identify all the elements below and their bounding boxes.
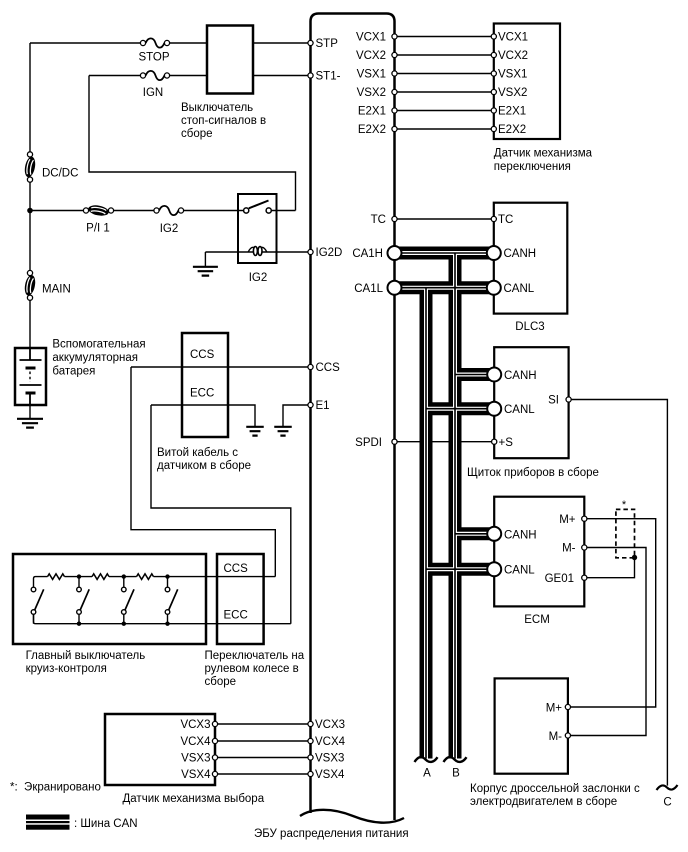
svg-text:VSX2: VSX2 — [357, 87, 386, 99]
node CANL ECM — [487, 562, 501, 576]
svg-text:VSX3: VSX3 — [315, 753, 344, 765]
node VSX1 sensor — [491, 71, 496, 76]
stop lamp switch box — [207, 26, 253, 94]
svg-text:Корпус дроссельной заслонки с: Корпус дроссельной заслонки с — [470, 783, 640, 795]
node GE01 — [582, 575, 587, 580]
svg-text:VSX4: VSX4 — [181, 769, 211, 781]
relay IG2 contacts and blade — [249, 201, 269, 209]
svg-text:Переключатель на: Переключатель на — [205, 650, 305, 662]
DLC3 box — [494, 203, 568, 314]
node VCX1 ECU — [392, 34, 397, 39]
node VSX4 sensor — [212, 771, 217, 776]
selector sensor box — [105, 714, 215, 785]
svg-text:CANH: CANH — [504, 370, 537, 382]
node M+ throttle — [565, 704, 570, 709]
node CANL DLC3 — [487, 281, 501, 295]
wire STOP fuse feed (bus to stop lamp switch) — [30, 42, 207, 44]
svg-text:TC: TC — [498, 214, 513, 226]
node VSX3 sensor — [212, 755, 217, 760]
svg-text:CANH: CANH — [504, 248, 537, 260]
wire relay ground stem — [204, 252, 206, 267]
svg-text:стоп-сигналов в: стоп-сигналов в — [181, 115, 266, 127]
fuse IG2 — [154, 208, 159, 213]
wire P/I 1 row — [30, 210, 296, 212]
fusible link DC/DC — [27, 152, 32, 157]
steering wheel switch box — [217, 554, 264, 644]
svg-text:аккумуляторная: аккумуляторная — [52, 352, 138, 364]
ground battery — [17, 419, 43, 428]
wire ECM M- to throttle M- — [568, 548, 646, 736]
wire IGN fuse row — [89, 75, 207, 77]
battery box — [15, 348, 46, 405]
switch cruise S3 — [123, 577, 125, 587]
svg-text:рулевом колесе в: рулевом колесе в — [205, 663, 299, 675]
svg-text:датчиком в сборе: датчиком в сборе — [157, 460, 251, 472]
node junction bus / P-I 1 — [27, 208, 33, 214]
switch cruise S4 — [167, 577, 169, 587]
node E1 — [308, 402, 313, 407]
node IG2D — [308, 249, 313, 254]
node VCX1 sensor — [491, 34, 496, 39]
svg-text:электродвигателем в сборе: электродвигателем в сборе — [470, 796, 617, 808]
svg-text:M+: M+ — [559, 514, 576, 526]
node M+ ECM — [582, 516, 587, 521]
node E2X1 ECU — [392, 108, 397, 113]
svg-text:DC/DC: DC/DC — [42, 168, 78, 180]
svg-text:CANL: CANL — [504, 283, 535, 295]
shift sensor box — [494, 24, 560, 140]
wire SI to C — [569, 400, 668, 786]
svg-text:C: C — [663, 797, 671, 809]
svg-text:VCX4: VCX4 — [180, 736, 211, 748]
svg-text:SI: SI — [548, 395, 559, 407]
svg-text:VCX1: VCX1 — [356, 32, 386, 44]
svg-text:E2X1: E2X1 — [498, 106, 526, 118]
ECM box — [494, 497, 584, 607]
instrument panel box — [494, 347, 568, 458]
svg-text:VSX3: VSX3 — [181, 753, 210, 765]
svg-text:CA1L: CA1L — [354, 283, 383, 295]
svg-text:E1: E1 — [316, 400, 330, 412]
svg-text:Вспомогательная: Вспомогательная — [52, 339, 145, 351]
svg-text:переключения: переключения — [494, 161, 571, 173]
node VSX2 ECU — [392, 89, 397, 94]
svg-text:DLC3: DLC3 — [515, 321, 544, 333]
resistor cruise R1 — [48, 574, 65, 580]
wire C break symbol — [657, 785, 678, 790]
fuse STOP — [140, 40, 145, 45]
node STP — [308, 40, 313, 45]
node GE01 shield junction — [632, 555, 637, 560]
wire left main bus — [29, 43, 31, 348]
wire ECC row to ground — [151, 405, 255, 427]
svg-text:CCS: CCS — [190, 349, 215, 361]
svg-text:ST1-: ST1- — [316, 71, 341, 83]
svg-text:Выключатель: Выключатель — [181, 102, 253, 114]
node VCX2 sensor — [491, 52, 496, 57]
wire battery ground stem — [29, 405, 31, 419]
fuse IGN — [140, 73, 145, 78]
node CANH ECM — [487, 527, 501, 541]
svg-text:VCX3: VCX3 — [180, 719, 210, 731]
node VSX4 ECU — [308, 771, 313, 776]
wires VCX3-VSX4 from selector sensor — [215, 724, 311, 774]
svg-text:M+: M+ — [546, 702, 563, 714]
shield dashed box — [616, 509, 635, 557]
svg-text:B: B — [452, 768, 460, 780]
wire E1 to ground — [283, 405, 311, 427]
node CA1H — [388, 246, 402, 260]
resistor cruise R2 — [92, 574, 109, 580]
node ST1- — [308, 73, 313, 78]
svg-text:CANL: CANL — [504, 565, 535, 577]
svg-text:Витой кабель с: Витой кабель с — [157, 447, 238, 459]
svg-text:IG2: IG2 — [249, 272, 268, 284]
svg-text:батарея: батарея — [52, 366, 95, 378]
svg-text:: Шина CAN: : Шина CAN — [74, 818, 138, 830]
svg-text:+S: +S — [499, 437, 514, 449]
legend CAN bus symbol — [26, 815, 70, 820]
switch cruise S1 — [33, 615, 35, 624]
svg-text:STOP: STOP — [138, 52, 169, 64]
svg-text:M-: M- — [562, 543, 576, 555]
fusible link MAIN — [27, 270, 32, 275]
fusible link P/I 1 — [83, 208, 88, 213]
relay IG2 coil — [248, 247, 254, 252]
node CANL instrument — [487, 402, 501, 416]
svg-text:VCX3: VCX3 — [315, 719, 345, 731]
svg-text:E2X2: E2X2 — [498, 124, 526, 136]
node CANH DLC3 — [487, 246, 501, 260]
wire TC — [395, 218, 494, 220]
node VCX4 sensor — [212, 738, 217, 743]
wire ECM M+ to throttle M+ — [568, 519, 656, 707]
wire CCS row — [131, 366, 311, 368]
battery cells — [20, 348, 42, 405]
svg-text:сборе: сборе — [205, 676, 237, 688]
ground E1 — [274, 427, 292, 436]
resistor cruise R3 — [137, 574, 154, 580]
svg-text:Щиток приборов в сборе: Щиток приборов в сборе — [467, 467, 599, 479]
svg-text:TC: TC — [371, 214, 386, 226]
ECU power distribution box — [311, 14, 395, 821]
wire GE01 to shield — [584, 558, 634, 578]
wire SPDI — [395, 441, 495, 443]
svg-text:E2X1: E2X1 — [358, 106, 386, 118]
wires VCX1-E2X2 to shift sensor — [395, 37, 494, 130]
node VSX3 ECU — [308, 755, 313, 760]
svg-text:VSX1: VSX1 — [498, 69, 527, 81]
svg-text:ECM: ECM — [524, 614, 550, 626]
node VCX4 ECU — [308, 738, 313, 743]
CAN bus black layer — [395, 253, 495, 759]
twisted cable box — [182, 333, 228, 437]
svg-text:CANH: CANH — [504, 529, 537, 541]
svg-text:E2X2: E2X2 — [358, 124, 386, 136]
switch cruise S2 — [78, 577, 80, 587]
svg-text:CANL: CANL — [504, 404, 535, 416]
cruise main switch box — [13, 554, 206, 644]
svg-text:VSX1: VSX1 — [357, 69, 386, 81]
CAN bus white stripes layer — [395, 253, 495, 759]
node SI — [566, 397, 571, 402]
wire ECC drop to cruise switch — [151, 405, 291, 624]
node E2X2 ECU — [392, 126, 397, 131]
node VCX3 sensor — [212, 721, 217, 726]
svg-text:Датчик механизма: Датчик механизма — [494, 148, 593, 160]
svg-text:*: * — [622, 499, 627, 511]
svg-text:CCS: CCS — [224, 563, 249, 575]
ground ECC — [246, 427, 264, 436]
CAN bus center line layer — [395, 253, 495, 759]
svg-text:ECC: ECC — [224, 610, 248, 622]
svg-text:Главный выключатель: Главный выключатель — [26, 650, 146, 662]
svg-text:CA1H: CA1H — [352, 248, 383, 260]
wire IGN feed from IG2 relay (down-right path) — [89, 76, 296, 211]
svg-text:IGN: IGN — [143, 87, 163, 99]
svg-text:VSX2: VSX2 — [498, 87, 527, 99]
node TC ECU — [392, 216, 397, 221]
relay IG2 box — [238, 194, 277, 263]
svg-text:M-: M- — [549, 731, 563, 743]
node VSX1 ECU — [392, 71, 397, 76]
wire stop lamp switch to ST1- — [253, 75, 311, 77]
svg-text:P/I 1: P/I 1 — [86, 223, 110, 235]
wire cruise bottom wire — [34, 615, 291, 624]
bus B break symbol — [444, 757, 467, 762]
svg-text:IG2: IG2 — [160, 223, 179, 235]
ECU wavy bottom — [300, 810, 404, 823]
node VCX3 ECU — [308, 721, 313, 726]
node SPDI — [392, 439, 397, 444]
node VSX2 sensor — [491, 89, 496, 94]
svg-text:VCX1: VCX1 — [498, 32, 528, 44]
svg-text:VCX4: VCX4 — [315, 736, 346, 748]
svg-text:круиз-контроля: круиз-контроля — [26, 663, 107, 675]
node E2X2 sensor — [491, 126, 496, 131]
svg-text:IG2D: IG2D — [316, 247, 343, 259]
svg-text:A: A — [423, 768, 431, 780]
svg-text:MAIN: MAIN — [42, 284, 71, 296]
wire stop lamp switch to STP — [253, 42, 311, 44]
node TC DLC3 — [491, 216, 496, 221]
svg-text:CCS: CCS — [316, 362, 341, 374]
node VCX2 ECU — [392, 52, 397, 57]
node CANH instrument — [487, 368, 501, 382]
node CA1L — [388, 281, 402, 295]
node M- throttle — [565, 733, 570, 738]
node +S — [492, 439, 497, 444]
node M- ECM — [582, 545, 587, 550]
svg-text:GE01: GE01 — [545, 573, 574, 585]
svg-text:ECC: ECC — [190, 388, 214, 400]
svg-text:*: Экранировано: *: Экранировано — [10, 782, 101, 794]
throttle body box — [495, 678, 568, 773]
svg-text:Датчик механизма выбора: Датчик механизма выбора — [123, 793, 265, 805]
svg-text:ЭБУ распределения питания: ЭБУ распределения питания — [254, 828, 409, 840]
svg-text:сборе: сборе — [181, 128, 213, 140]
wire IG2 relay coil row to IG2D — [205, 251, 310, 253]
svg-text:VCX2: VCX2 — [356, 50, 386, 62]
node E2X1 sensor — [491, 108, 496, 113]
wire CCS drop to cruise switch — [131, 367, 275, 577]
svg-text:STP: STP — [316, 38, 339, 50]
bus A break symbol — [415, 757, 438, 762]
wire cruise resistor chain (top wire) — [34, 577, 276, 587]
svg-text:SPDI: SPDI — [355, 437, 382, 449]
ground relay coil — [193, 267, 218, 276]
node CCS — [308, 364, 313, 369]
svg-text:VSX4: VSX4 — [315, 769, 345, 781]
svg-text:VCX2: VCX2 — [498, 50, 528, 62]
